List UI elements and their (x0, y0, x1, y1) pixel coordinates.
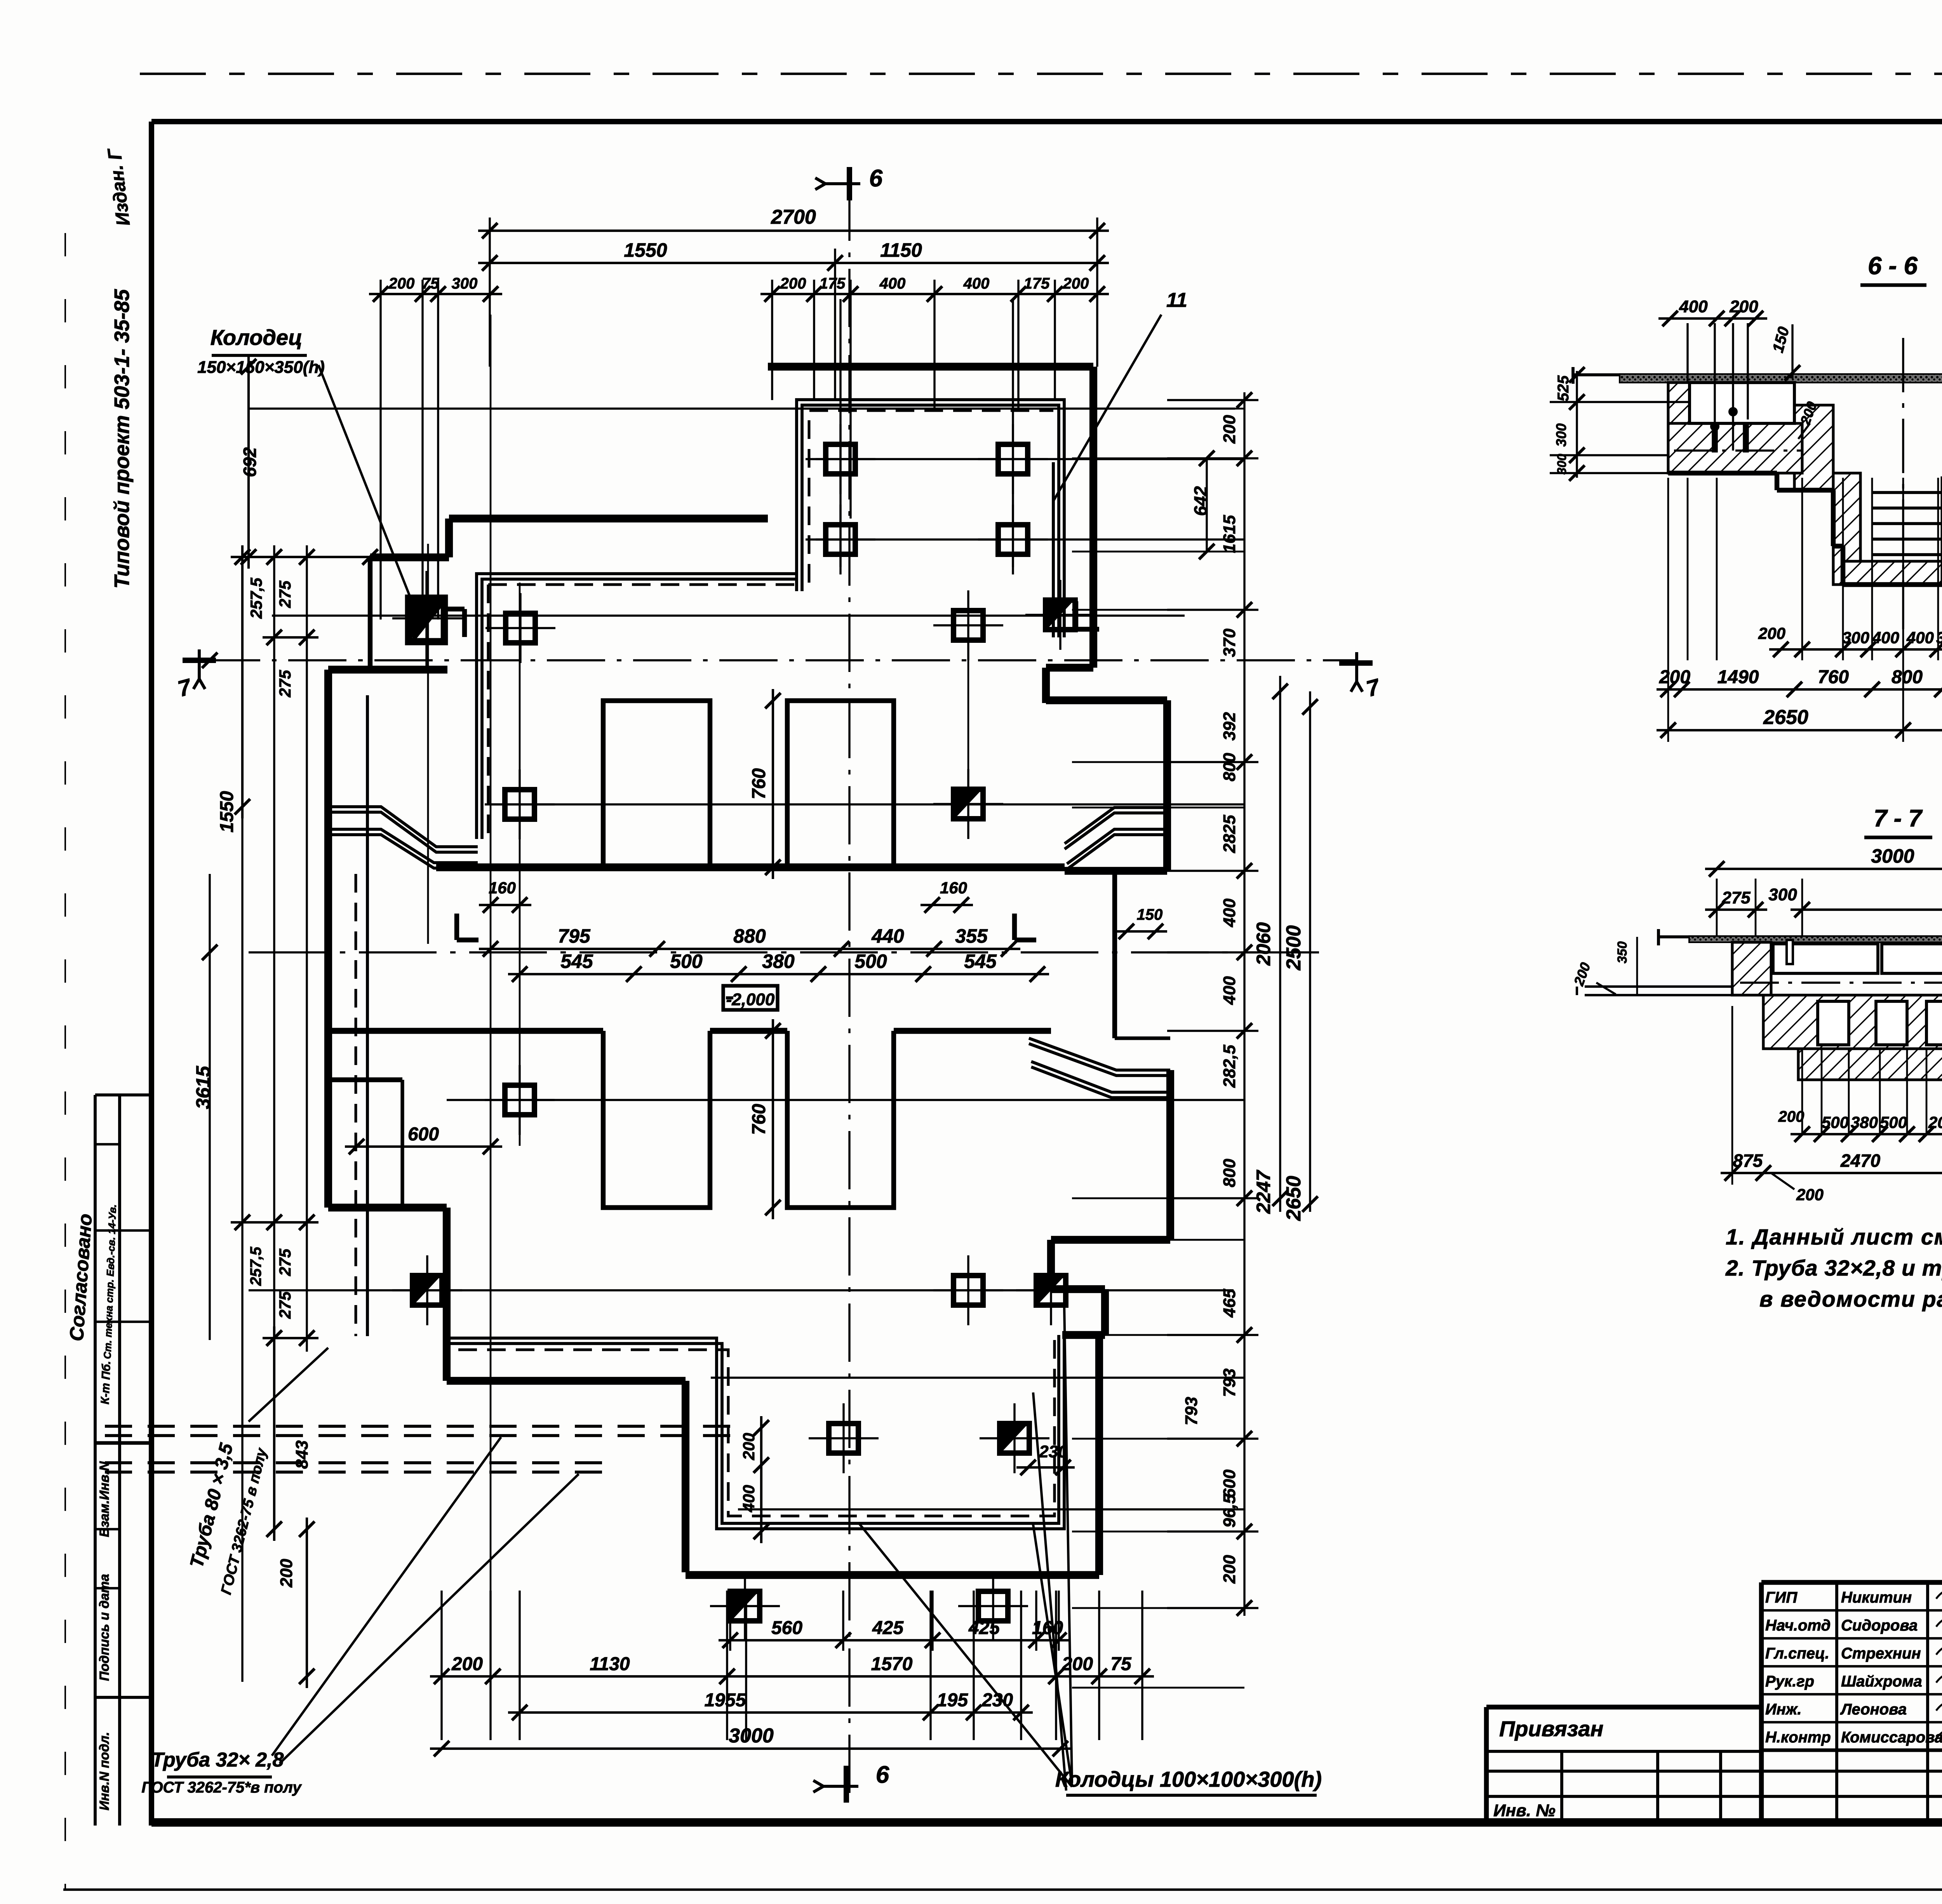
svg-text:Инв.N подл.: Инв.N подл. (97, 1732, 112, 1810)
svg-text:300: 300 (1842, 628, 1869, 647)
svg-text:150×150×350(h): 150×150×350(h) (197, 358, 325, 377)
svg-text:Никитин: Никитин (1841, 1589, 1912, 1606)
svg-text:257,5: 257,5 (247, 1246, 265, 1286)
svg-text:2650: 2650 (1282, 1176, 1305, 1221)
svg-text:545: 545 (560, 950, 593, 972)
svg-text:275: 275 (276, 1248, 294, 1276)
title block (stamp) (1486, 1582, 1942, 1827)
svg-text:175: 175 (1024, 275, 1050, 292)
svg-text:795: 795 (558, 925, 591, 947)
svg-text:282,5: 282,5 (1220, 1044, 1239, 1088)
svg-text:200: 200 (1659, 667, 1690, 687)
svg-text:200: 200 (451, 1654, 483, 1674)
svg-text:К-т Пб.: К-т Пб. (99, 1361, 113, 1405)
svg-text:175: 175 (820, 275, 846, 292)
svg-text:Сидорова: Сидорова (1841, 1617, 1918, 1634)
svg-text:2700: 2700 (771, 206, 816, 228)
svg-text:350: 350 (1615, 942, 1630, 964)
svg-text:200: 200 (388, 275, 415, 292)
svg-text:425: 425 (872, 1618, 904, 1638)
svg-text:2470: 2470 (1840, 1150, 1881, 1171)
svg-text:6: 6 (876, 1761, 889, 1788)
svg-text:600: 600 (408, 1124, 439, 1145)
svg-text:Инв. №: Инв. № (1493, 1801, 1556, 1820)
svg-text:400: 400 (1906, 628, 1934, 647)
svg-text:200: 200 (1928, 1113, 1942, 1131)
svg-text:Труба 32× 2,8: Труба 32× 2,8 (151, 1749, 284, 1771)
svg-text:6 - 6: 6 - 6 (1868, 252, 1918, 280)
svg-text:200: 200 (1220, 1555, 1239, 1584)
svg-text:793: 793 (1220, 1368, 1239, 1397)
svg-text:Стрехнин: Стрехнин (1841, 1645, 1921, 1662)
svg-text:600: 600 (1220, 1469, 1239, 1498)
svg-text:Леонова: Леонова (1840, 1701, 1907, 1718)
svg-text:230: 230 (981, 1690, 1013, 1711)
svg-text:500: 500 (1880, 1113, 1907, 1131)
svg-text:200: 200 (740, 1433, 758, 1460)
svg-text:Колодец: Колодец (211, 325, 303, 350)
svg-text:275: 275 (276, 1291, 294, 1319)
svg-text:300: 300 (1553, 423, 1569, 447)
svg-text:-2,000: -2,000 (726, 990, 775, 1009)
section 6-6 (1550, 252, 1942, 742)
svg-text:400: 400 (740, 1485, 758, 1512)
svg-text:Подпись и дата: Подпись и дата (97, 1574, 112, 1681)
svg-text:1550: 1550 (624, 239, 667, 261)
svg-text:500: 500 (854, 950, 887, 972)
svg-text:200: 200 (1796, 1185, 1824, 1204)
svg-text:Типовой проект 503-1- 35-85: Типовой проект 503-1- 35-85 (110, 289, 134, 589)
svg-text:760: 760 (749, 768, 769, 799)
svg-text:545: 545 (964, 950, 997, 972)
svg-text:400: 400 (1220, 976, 1239, 1005)
svg-text:875: 875 (1733, 1150, 1763, 1171)
svg-text:400: 400 (879, 275, 906, 292)
svg-text:440: 440 (871, 925, 904, 947)
svg-text:465: 465 (1220, 1289, 1239, 1318)
svg-text:692: 692 (240, 447, 260, 477)
svg-text:560: 560 (771, 1618, 802, 1638)
svg-text:1570: 1570 (871, 1654, 913, 1674)
svg-text:Инж.: Инж. (1765, 1701, 1802, 1718)
svg-text:800: 800 (1220, 1159, 1239, 1187)
svg-text:11: 11 (1166, 289, 1187, 312)
svg-text:275: 275 (276, 670, 294, 698)
svg-text:200: 200 (1729, 297, 1758, 316)
svg-text:275: 275 (1721, 888, 1751, 907)
svg-text:75: 75 (1110, 1654, 1132, 1674)
svg-text:275: 275 (276, 580, 294, 608)
svg-text:160: 160 (489, 879, 516, 897)
svg-text:3000: 3000 (729, 1725, 774, 1747)
svg-text:Н.контр: Н.контр (1765, 1729, 1831, 1746)
svg-text:760: 760 (1818, 667, 1849, 687)
svg-text:195: 195 (937, 1690, 968, 1711)
svg-text:200: 200 (277, 1559, 296, 1588)
svg-text:Комиссарова: Комиссарова (1841, 1729, 1942, 1746)
svg-text:160: 160 (1032, 1618, 1063, 1638)
svg-text:Рук.гр: Рук.гр (1765, 1673, 1814, 1690)
svg-text:Шайхрома: Шайхрома (1841, 1673, 1922, 1690)
svg-text:300: 300 (1768, 885, 1797, 904)
svg-text:1490: 1490 (1718, 667, 1759, 687)
svg-text:Гл.спец.: Гл.спец. (1765, 1645, 1829, 1662)
svg-text:в ведомости расхода на л: в ведомости расхода на листе 47. (1759, 1287, 1942, 1312)
svg-text:300: 300 (1936, 628, 1942, 647)
svg-text:2060: 2060 (1253, 922, 1274, 966)
svg-text:500: 500 (670, 950, 703, 972)
svg-text:355: 355 (955, 925, 988, 947)
svg-text:200: 200 (780, 275, 806, 292)
svg-text:425: 425 (968, 1618, 1000, 1638)
svg-text:1955: 1955 (705, 1690, 747, 1711)
svg-text:96,5: 96,5 (1220, 1494, 1239, 1528)
svg-text:380: 380 (762, 950, 795, 972)
svg-text:500: 500 (1822, 1113, 1849, 1131)
foundation plan ФОМ10 fragment 1 with dimensions (105, 165, 1383, 1803)
svg-text:3000: 3000 (1871, 845, 1914, 867)
svg-text:2500: 2500 (1282, 925, 1305, 971)
svg-text:380: 380 (1851, 1113, 1878, 1131)
svg-text:Колодцы 100×100×300(h): Колодцы 100×100×300(h) (1055, 1767, 1322, 1791)
svg-text:392: 392 (1220, 712, 1239, 741)
svg-text:2247: 2247 (1253, 1170, 1274, 1214)
svg-text:300: 300 (452, 275, 478, 292)
svg-text:800: 800 (1220, 753, 1239, 781)
svg-text:800: 800 (1892, 667, 1923, 687)
svg-text:ГИП: ГИП (1765, 1589, 1798, 1606)
svg-text:ГОСТ 3262-75*в полу: ГОСТ 3262-75*в полу (141, 1779, 302, 1796)
svg-text:760: 760 (749, 1104, 769, 1135)
svg-text:793: 793 (1182, 1397, 1201, 1425)
left margin table and rotated captions (66, 146, 151, 1826)
svg-text:200: 200 (1220, 415, 1239, 444)
svg-text:1550: 1550 (217, 791, 237, 832)
svg-text:2650: 2650 (1763, 706, 1808, 729)
svg-text:1615: 1615 (1220, 515, 1239, 553)
svg-text:200: 200 (1063, 275, 1089, 292)
svg-text:200: 200 (1758, 624, 1785, 642)
svg-text:1. Данный лист см. совместн: 1. Данный лист см. совместно с листом 47… (1726, 1225, 1942, 1250)
section 7-7 (1570, 805, 1942, 1204)
svg-text:150: 150 (1137, 906, 1163, 923)
svg-text:257,5: 257,5 (247, 578, 265, 619)
svg-text:400: 400 (1872, 628, 1899, 647)
svg-text:7 - 7: 7 - 7 (1874, 805, 1923, 832)
svg-text:2. Труба 32×2,8 и труба 80×3: 2. Труба 32×2,8 и труба 80×3,5 по ГОСТ32… (1725, 1256, 1942, 1281)
svg-text:400: 400 (963, 275, 990, 292)
svg-text:Привязан: Привязан (1499, 1716, 1603, 1741)
notes (1725, 1225, 1942, 1312)
svg-text:525: 525 (1555, 375, 1572, 401)
svg-text:400: 400 (1679, 297, 1708, 316)
svg-text:75: 75 (422, 275, 439, 292)
svg-text:2825: 2825 (1220, 815, 1239, 853)
svg-text:230: 230 (1039, 1442, 1068, 1461)
svg-text:6: 6 (869, 165, 883, 192)
svg-text:200: 200 (1778, 1108, 1805, 1125)
svg-text:300: 300 (1555, 454, 1569, 475)
svg-text:1130: 1130 (590, 1654, 630, 1674)
svg-text:1150: 1150 (880, 239, 922, 261)
svg-text:880: 880 (733, 925, 766, 947)
svg-text:Нач.отд: Нач.отд (1765, 1617, 1831, 1634)
svg-text:400: 400 (1220, 898, 1239, 928)
svg-text:843: 843 (292, 1440, 311, 1469)
svg-text:160: 160 (940, 879, 967, 897)
svg-text:200: 200 (1061, 1654, 1093, 1674)
svg-text:370: 370 (1220, 628, 1239, 657)
